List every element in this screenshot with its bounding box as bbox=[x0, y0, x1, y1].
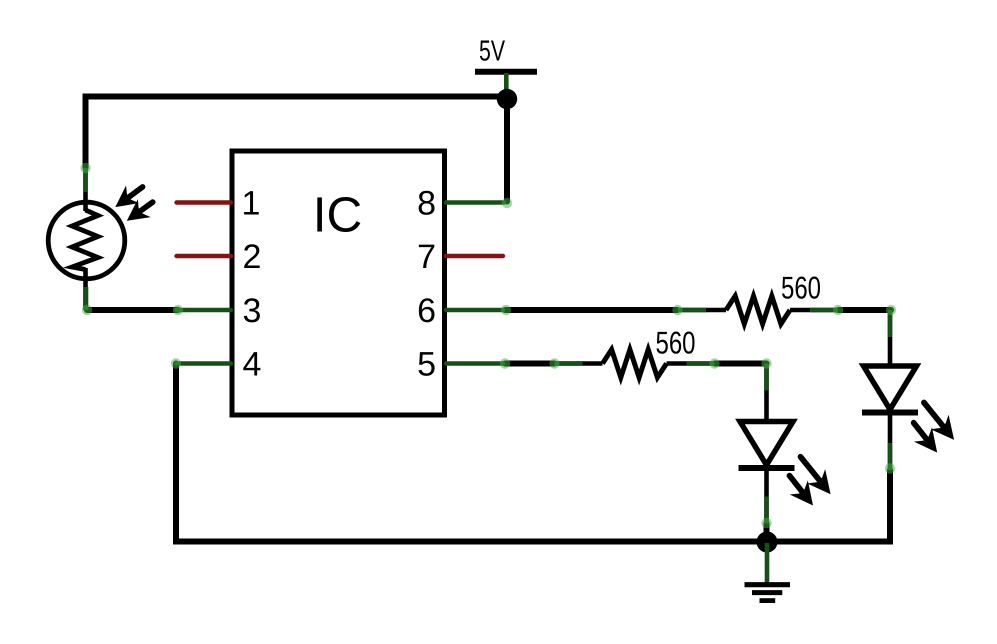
LED D1 bbox=[739, 364, 795, 524]
svg-text:8: 8 bbox=[417, 185, 436, 223]
node dot D2 anode corner bbox=[886, 305, 896, 315]
resistor R1 560 bbox=[678, 296, 838, 324]
IC pin number 2 bbox=[243, 238, 262, 276]
power +5V symbol bbox=[475, 72, 537, 98]
node dot pin8 wire end bbox=[502, 198, 512, 208]
D2 light arrow 1 bbox=[915, 395, 963, 447]
svg-text:5V: 5V bbox=[479, 36, 505, 68]
node dot LDR top bbox=[80, 163, 90, 173]
IC pin number 6 bbox=[417, 292, 436, 330]
node dot pin4 wire start bbox=[171, 358, 181, 368]
svg-text:560: 560 bbox=[781, 270, 821, 306]
wire W6 IC pin 5 to R2 left bbox=[505, 361, 555, 367]
wire W4 IC pin 6 to R1 left bbox=[505, 307, 678, 313]
IC pin number 1 bbox=[242, 185, 261, 223]
node dot D1 anode corner bbox=[761, 358, 771, 368]
svg-text:2: 2 bbox=[243, 238, 262, 276]
wire W7 R2 right to LED D1 anode bbox=[715, 361, 767, 367]
node dot pin6 wire start bbox=[501, 305, 511, 315]
D1 light arrow 1 bbox=[792, 450, 840, 502]
svg-text:6: 6 bbox=[417, 292, 436, 330]
wire W1 from LDR top to 5V junction bbox=[86, 97, 508, 169]
LDR1 light arrow 2 bbox=[120, 193, 159, 230]
node dot pin5 wire start bbox=[500, 358, 510, 368]
LED D2 bbox=[862, 310, 918, 470]
wire endpoint node dots bbox=[80, 163, 896, 528]
IC pin number 3 bbox=[243, 292, 262, 330]
svg-text:1: 1 bbox=[242, 185, 261, 223]
LDR1 bottom pin highlight bbox=[84, 287, 89, 310]
R2 value label 560 bbox=[656, 325, 696, 361]
svg-text:560: 560 bbox=[656, 325, 696, 361]
wire W3 LDR bottom to IC pin 3 bbox=[87, 307, 178, 313]
5V label bbox=[479, 36, 505, 68]
node dot R2 right bbox=[709, 358, 719, 368]
IC pin number 5 bbox=[417, 346, 436, 384]
svg-text:5: 5 bbox=[417, 346, 436, 384]
node dot R1 left bbox=[672, 305, 682, 315]
node dot D2 cathode bbox=[885, 463, 895, 473]
LDR1 light arrow 1 bbox=[109, 178, 149, 216]
node dot R2 left bbox=[549, 358, 559, 368]
IC pin number 7 bbox=[417, 238, 436, 276]
D2 light arrow 2 bbox=[905, 416, 947, 460]
IC pin 1 stub bbox=[177, 200, 232, 204]
wire W10 LED D1 cathode to bottom wire bbox=[764, 524, 770, 542]
resistor R2 560 bbox=[555, 350, 715, 378]
IC pin 4 stub bbox=[177, 361, 232, 365]
node dot LDR bottom bbox=[82, 305, 92, 315]
svg-text:7: 7 bbox=[417, 238, 436, 276]
IC pin 6 stub bbox=[446, 308, 503, 312]
IC pin 8 stub bbox=[446, 200, 504, 204]
svg-text:IC: IC bbox=[313, 188, 363, 243]
node dot D1 cathode bbox=[761, 518, 771, 528]
wire W2 from junction down to IC pin 8 bbox=[504, 99, 510, 202]
photoresistor LDR1 bbox=[48, 168, 125, 310]
wire W8 IC pin 4 down and along bottom to ground junction and LED D2 bbox=[176, 364, 890, 542]
svg-text:3: 3 bbox=[243, 292, 262, 330]
D1 light arrow 2 bbox=[780, 469, 822, 513]
junction node at ground bbox=[757, 532, 778, 553]
junction node at 5V bbox=[497, 89, 517, 109]
node dot R1 right bbox=[833, 305, 843, 315]
IC pin number 4 bbox=[243, 346, 262, 384]
IC pin number 8 bbox=[417, 185, 436, 223]
IC label bbox=[313, 188, 363, 243]
IC pin 2 stub bbox=[177, 254, 232, 258]
wire W5 R1 right to LED D2 anode bbox=[838, 307, 891, 313]
LDR1 top pin highlight bbox=[83, 168, 88, 192]
IC pin 3 stub bbox=[177, 308, 232, 312]
ground symbol bbox=[745, 543, 791, 601]
IC pin 7 stub bbox=[446, 254, 503, 258]
node dot pin3 end bbox=[173, 305, 183, 315]
R1 value label 560 bbox=[781, 270, 821, 306]
IC pin 5 stub bbox=[446, 361, 503, 365]
svg-text:4: 4 bbox=[243, 346, 262, 384]
IC U1 body bbox=[232, 151, 445, 415]
